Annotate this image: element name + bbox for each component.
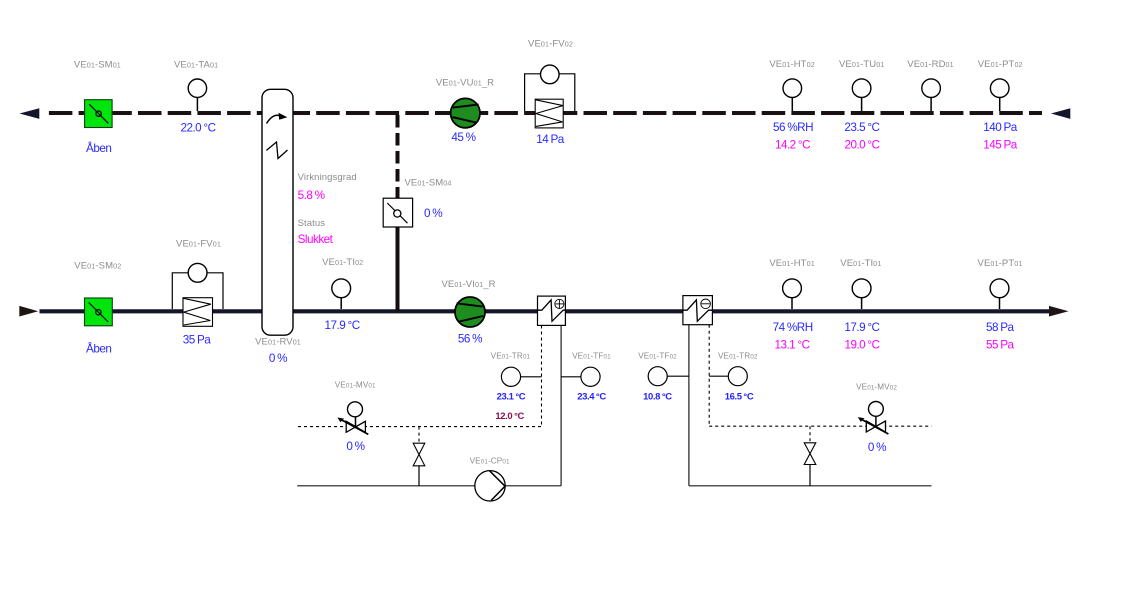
svg-text:17.9 °C: 17.9 °C — [844, 321, 879, 334]
svg-text:56 %RH: 56 %RH — [773, 121, 813, 134]
wire: cooling supply pipe horizontal (solid) — [689, 485, 932, 487]
cooling coil KV (zigzag, minus) — [683, 296, 713, 325]
wire: cooling supply pipe vertical (solid) — [688, 325, 690, 486]
svg-text:VE01-VU01_R: VE01-VU01_R — [436, 78, 494, 89]
sensor VE01-TF01 — [561, 367, 600, 386]
sensor VE01-HT01 — [783, 279, 802, 309]
valve VE01-MV01 (motor valve) — [337, 402, 368, 435]
svg-text:10.8 °C: 10.8 °C — [643, 392, 672, 403]
svg-text:VE01-TI02: VE01-TI02 — [322, 257, 363, 268]
svg-text:Status: Status — [298, 218, 326, 229]
svg-text:VE01-RD01: VE01-RD01 — [907, 59, 953, 70]
svg-text:VE01-PT01: VE01-PT01 — [978, 258, 1023, 269]
svg-text:145 Pa: 145 Pa — [983, 139, 1018, 152]
svg-text:Slukket: Slukket — [298, 233, 334, 246]
svg-text:Åben: Åben — [86, 142, 111, 155]
wire: heating control pipe horizontal (dashed) — [298, 426, 542, 428]
wire: recirculation vertical duct upper (dashed) — [396, 115, 400, 198]
wire: heating control pipe vertical (dashed) — [541, 326, 543, 427]
svg-text:VE01-TF02: VE01-TF02 — [638, 352, 677, 361]
svg-text:0 %: 0 % — [424, 207, 442, 220]
sensor VE01-PT02 — [990, 79, 1009, 111]
wire: top extract duct (dashed) — [49, 111, 1042, 115]
svg-text:VE01-SM02: VE01-SM02 — [74, 261, 121, 272]
sensor VE01-RD01 — [922, 79, 941, 111]
sensor VE01-TF02 — [648, 367, 689, 386]
wire: recirculation vertical duct lower (solid) — [396, 227, 400, 311]
svg-text:35 Pa: 35 Pa — [183, 334, 212, 347]
wire: cooling control pipe vertical (dashed) — [708, 325, 710, 426]
arrow: top duct left end (points left) — [20, 108, 40, 119]
svg-text:VE01-HT01: VE01-HT01 — [769, 258, 814, 269]
svg-text:13.1 °C: 13.1 °C — [774, 339, 809, 352]
svg-text:VE01-TF01: VE01-TF01 — [572, 352, 611, 361]
svg-text:23.4 °C: 23.4 °C — [577, 392, 606, 403]
check valve (cooling branch) — [804, 426, 816, 486]
damper VE01-SM02 (green, open) — [85, 298, 113, 326]
wire: bottom supply duct (solid) — [40, 309, 1050, 313]
svg-text:22.0 °C: 22.0 °C — [180, 121, 215, 134]
svg-text:VE01-FV02: VE01-FV02 — [528, 39, 573, 50]
svg-text:VE01-SM01: VE01-SM01 — [74, 59, 121, 70]
heat exchanger VE01-RV01 (rotary) — [262, 89, 293, 335]
svg-text:Virkningsgrad: Virkningsgrad — [298, 172, 357, 183]
heating coil VV (zigzag, plus) — [538, 296, 566, 325]
filter VE01-FV02 with dP sensor — [525, 65, 575, 128]
wire: cooling control pipe horizontal (dashed) — [709, 425, 931, 427]
sensor VE01-TA01 — [188, 79, 206, 111]
svg-text:45 %: 45 % — [451, 131, 475, 144]
wire: heating return pipe vertical (solid) — [560, 326, 562, 486]
svg-text:VE01-VI01_R: VE01-VI01_R — [441, 279, 495, 290]
sensor VE01-HT02 — [783, 79, 802, 111]
sensor VE01-TU01 — [852, 79, 871, 111]
svg-text:23.5 °C: 23.5 °C — [844, 121, 879, 134]
svg-text:56 %: 56 % — [458, 333, 482, 346]
svg-text:VE01-TU01: VE01-TU01 — [839, 59, 884, 70]
svg-text:VE01-PT02: VE01-PT02 — [978, 59, 1023, 70]
svg-text:74 %RH: 74 %RH — [773, 321, 813, 334]
svg-text:VE01-TI01: VE01-TI01 — [840, 258, 881, 269]
svg-text:140 Pa: 140 Pa — [983, 121, 1018, 134]
svg-text:VE01-TR01: VE01-TR01 — [491, 352, 531, 361]
svg-text:VE01-MV01: VE01-MV01 — [335, 380, 376, 389]
svg-text:VE01-HT02: VE01-HT02 — [769, 59, 814, 70]
damper VE01-SM01 (green, open) — [85, 100, 113, 128]
svg-text:VE01-CP01: VE01-CP01 — [470, 457, 510, 466]
sensor VE01-TR02 — [709, 367, 747, 386]
fan VE01-VI01_R (supply) — [455, 297, 485, 327]
pump VE01-CP01 — [475, 471, 505, 501]
svg-text:0 %: 0 % — [346, 440, 364, 453]
damper VE01-SM04 (recirculation) — [383, 198, 412, 227]
valve VE01-MV02 (motor valve) — [858, 402, 889, 435]
svg-text:19.0 °C: 19.0 °C — [844, 339, 879, 352]
fan VE01-VU01_R (extract) — [451, 98, 480, 127]
svg-text:VE01-MV02: VE01-MV02 — [856, 383, 897, 392]
sensor VE01-TI01 — [852, 279, 871, 309]
svg-text:12.0 °C: 12.0 °C — [495, 411, 524, 422]
arrow: bottom duct left end (points right) — [19, 306, 38, 317]
svg-text:55 Pa: 55 Pa — [986, 339, 1015, 352]
svg-text:23.1 °C: 23.1 °C — [497, 392, 526, 403]
svg-text:VE01-RV01: VE01-RV01 — [255, 337, 301, 348]
svg-text:14.2 °C: 14.2 °C — [775, 139, 810, 152]
sensor VE01-PT01 — [990, 279, 1009, 309]
filter VE01-FV01 with dP sensor — [172, 263, 223, 326]
svg-text:58 Pa: 58 Pa — [986, 321, 1015, 334]
arrow: top duct right end (points left) — [1051, 108, 1070, 119]
sensor VE01-TR01 — [501, 367, 541, 386]
svg-text:16.5 °C: 16.5 °C — [725, 392, 754, 403]
svg-text:20.0 °C: 20.0 °C — [844, 139, 879, 152]
svg-text:0 %: 0 % — [868, 441, 886, 454]
svg-text:0 %: 0 % — [269, 352, 287, 365]
svg-text:14 Pa: 14 Pa — [536, 133, 565, 146]
wire: heating return pipe horizontal (solid) — [297, 485, 561, 487]
arrow: bottom duct right end (points right) — [1049, 306, 1069, 317]
svg-text:VE01-FV01: VE01-FV01 — [176, 239, 221, 250]
check valve (heating branch) — [413, 427, 425, 486]
svg-text:VE01-SM04: VE01-SM04 — [405, 178, 452, 189]
sensor VE01-TI02 — [332, 279, 351, 309]
svg-text:VE01-TA01: VE01-TA01 — [174, 59, 218, 70]
svg-text:VE01-TR02: VE01-TR02 — [718, 352, 758, 361]
svg-text:Åben: Åben — [86, 342, 111, 355]
svg-text:5.8 %: 5.8 % — [298, 189, 325, 202]
svg-text:17.9 °C: 17.9 °C — [325, 319, 360, 332]
